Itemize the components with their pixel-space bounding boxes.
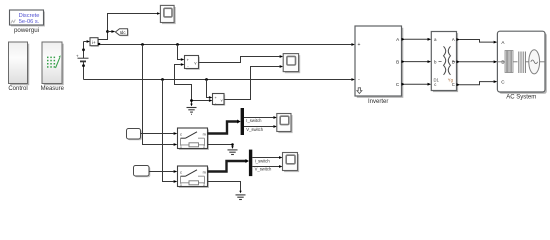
svg-text:m: m <box>203 133 206 137</box>
svg-text:I_switch: I_switch <box>246 118 262 123</box>
scope Idc <box>160 5 175 24</box>
node Idc branch <box>106 30 115 33</box>
svg-text:AC System: AC System <box>506 95 536 101</box>
wire to voltage measurement U2 plus <box>207 80 213 99</box>
node vmeas2 tap <box>205 78 208 81</box>
wire breaker B1 m to bus bar BB1 (thick) <box>208 120 241 134</box>
node feeder2 tap <box>161 78 164 81</box>
wire transformer A to AC system A <box>457 38 498 43</box>
wire U1 output to scope VAB input 1 <box>199 55 284 62</box>
wire DC minus rail <box>84 78 356 81</box>
wire bus BB2 V_switch to scope S4 <box>252 165 282 172</box>
transformer T1 <box>431 32 458 93</box>
ground G2 <box>228 150 238 155</box>
svg-text:C: C <box>452 82 455 87</box>
wire bus BB2 I_switch to scope S4 <box>252 156 282 163</box>
breaker B2 <box>178 166 209 188</box>
inverter U3 <box>355 26 403 105</box>
svg-text:Measure: Measure <box>41 86 65 92</box>
constant block K2 <box>134 166 151 178</box>
goto tag Idc <box>115 29 128 37</box>
node feeder1 tap <box>141 43 144 46</box>
wire voltage measurement U1 minus to ground chain <box>175 63 192 106</box>
scope VAB <box>283 54 300 74</box>
Control subsystem block <box>8 42 29 92</box>
svg-text:i+: i+ <box>92 40 96 45</box>
Measure subsystem block <box>41 42 65 92</box>
svg-text:Yg: Yg <box>448 78 454 83</box>
svg-text:m: m <box>203 171 206 175</box>
voltage measurement U2 <box>213 94 226 106</box>
DC voltage source battery <box>76 42 89 80</box>
svg-text:Idc: Idc <box>120 30 127 35</box>
wire breaker B2 port 2 to ground G3 <box>208 182 242 194</box>
svg-text:v: v <box>221 98 223 102</box>
svg-text:c: c <box>180 171 182 175</box>
wire feeder to breaker B1 port 1 <box>143 45 178 146</box>
wire U2 output to scope VAB input 2 <box>224 65 283 99</box>
ground G1 <box>187 104 197 115</box>
svg-text:Discrete: Discrete <box>19 13 40 19</box>
wire K1 to breaker B1 control <box>141 132 178 135</box>
current measurement block i+ <box>84 38 101 47</box>
wire inverter B to transformer b <box>402 60 432 63</box>
bus bar BB1 <box>241 108 244 135</box>
wire breaker B1 port 2 to ground G2 <box>208 143 234 149</box>
bus bar BB2 <box>249 150 252 177</box>
AC System block <box>497 31 546 100</box>
wire inverter A to transformer a <box>402 38 432 41</box>
wire transformer B to AC system B <box>457 60 498 63</box>
wire K2 to breaker B2 control <box>149 170 177 173</box>
scope S3 <box>277 114 293 134</box>
wire feeder to breaker B2 port 1 <box>163 80 178 183</box>
wire breaker B2 m to bus bar BB2 (thick) <box>208 159 249 172</box>
svg-text:D1: D1 <box>434 78 440 83</box>
voltage measurement U1 <box>185 56 200 70</box>
svg-text:B: B <box>452 59 455 64</box>
svg-text:V_switch: V_switch <box>255 167 272 172</box>
svg-text:c: c <box>180 133 182 137</box>
scope S4 <box>283 153 300 173</box>
svg-text:+: + <box>358 42 361 48</box>
ground G3 <box>236 195 246 200</box>
powergui block <box>10 10 46 34</box>
wire ground chain to U2 minus <box>190 99 212 102</box>
svg-text:Control: Control <box>8 86 27 92</box>
svg-text:+: + <box>76 53 79 58</box>
wire bus BB1 V_switch to scope S3 <box>244 125 277 132</box>
svg-text:c: c <box>434 82 436 87</box>
svg-text:A: A <box>452 37 455 42</box>
svg-text:5e-06 s.: 5e-06 s. <box>19 19 40 25</box>
node vmeas1 tap <box>176 43 179 46</box>
svg-text:powergui: powergui <box>14 27 39 34</box>
svg-text:I_switch: I_switch <box>255 158 271 163</box>
constant block K1 <box>127 129 142 141</box>
wire transformer C to AC system C <box>457 80 498 86</box>
wire inverter C to transformer c <box>402 83 432 86</box>
svg-text:V_switch: V_switch <box>246 127 263 132</box>
svg-text:B: B <box>396 59 399 64</box>
svg-text:Inverter: Inverter <box>368 99 388 105</box>
wire bus BB1 I_switch to scope S3 <box>244 116 277 123</box>
wire to voltage measurement U1 plus <box>178 45 185 61</box>
breaker B1 <box>178 128 209 150</box>
wire i+ signal to scope and Idc <box>98 12 160 39</box>
wire DC plus rail <box>100 43 355 46</box>
